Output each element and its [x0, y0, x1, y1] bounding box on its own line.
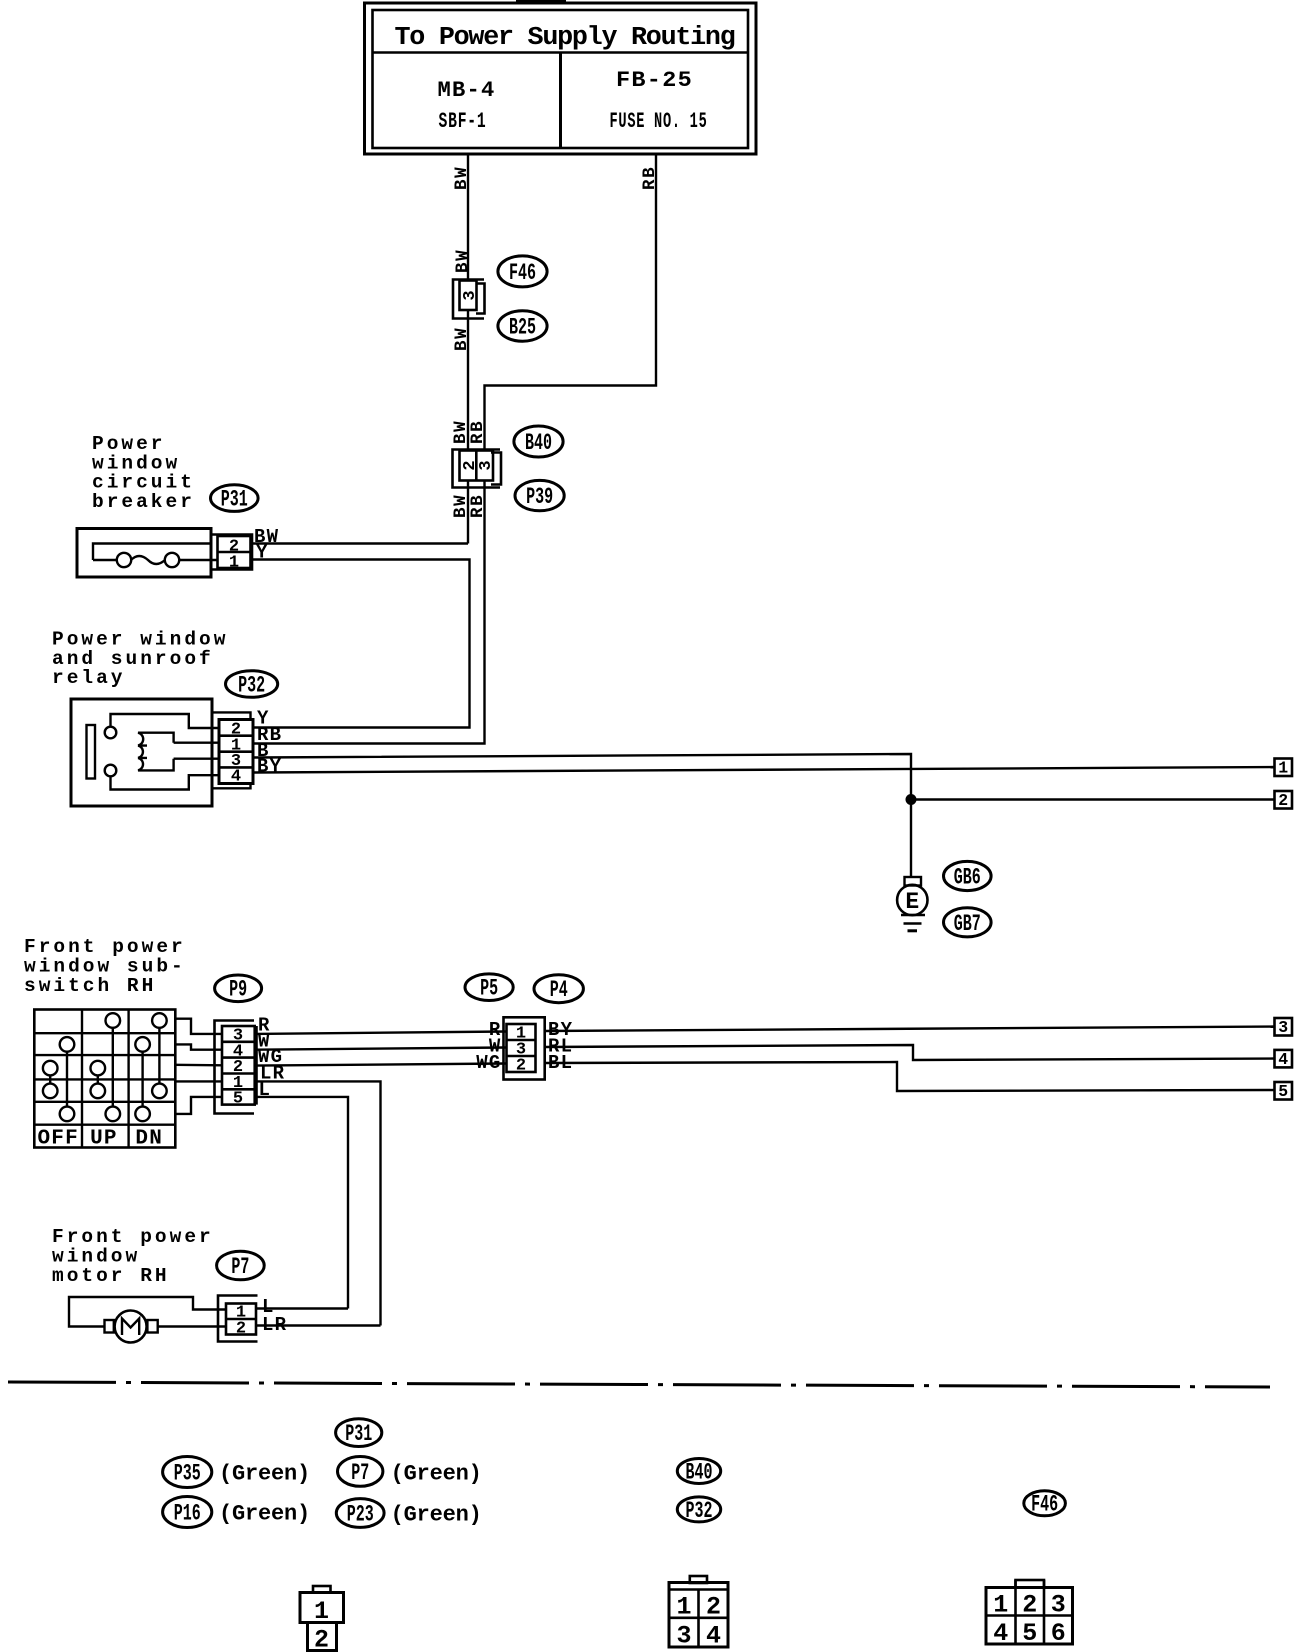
- connector B40/P39 left bracket: [453, 450, 501, 488]
- ellipse B40 (legend): [677, 1459, 720, 1484]
- wire BY from P4 to terminal 3: [545, 1027, 1275, 1032]
- connector P9 right bracket: [255, 1026, 258, 1105]
- svg-text:P7: P7: [231, 1254, 249, 1281]
- power supply routing box outer frame: [365, 3, 757, 154]
- svg-text:P5: P5: [480, 976, 498, 1003]
- motor brush block left: [105, 1320, 114, 1333]
- ellipse P35 (legend): [163, 1457, 212, 1488]
- svg-text:F46: F46: [509, 260, 536, 287]
- SEC-BREAKER: [77, 433, 470, 728]
- wire W from P9 to P5: [255, 1048, 507, 1050]
- SEC-LEGEND: [163, 1419, 1073, 1652]
- svg-text:4: 4: [706, 1622, 721, 1651]
- ellipse P31 (legend): [336, 1419, 382, 1447]
- SEC-SUBSWITCH: [24, 936, 1292, 1326]
- wire motor left loop to connector pin 1: [69, 1297, 226, 1327]
- ellipse GB7: [944, 908, 992, 937]
- stub wire grid row2 to P9 pin 4: [175, 1044, 222, 1049]
- relay connector wing top: [212, 712, 251, 719]
- cell divider MB-4 / FB-25: [559, 53, 562, 149]
- svg-text:P23: P23: [347, 1501, 374, 1528]
- svg-text:1: 1: [229, 554, 239, 573]
- connector P5/P4 outer frame: [504, 1017, 545, 1079]
- relay coil wire to pin 1: [174, 742, 219, 744]
- connector P9 left bracket: [215, 1021, 255, 1114]
- svg-text:WG: WG: [476, 1052, 501, 1074]
- section separator dash-dot line: [8, 1382, 1270, 1387]
- wire LR from P7 pin 2: [256, 1324, 381, 1326]
- title divider: [373, 51, 749, 54]
- terminal 1 box: [1275, 759, 1293, 777]
- svg-text:1: 1: [1278, 759, 1288, 778]
- SEC-GROUND: [897, 800, 991, 938]
- svg-text:2: 2: [1022, 1591, 1037, 1620]
- connector F46/B25 right bracket: [476, 284, 485, 314]
- breaker thermal wavy element: [131, 556, 165, 564]
- svg-text:DN: DN: [135, 1128, 163, 1151]
- wire RL from P4 to terminal 4: [545, 1045, 1275, 1060]
- connector B40/P39 pin cells: [460, 451, 494, 481]
- ellipse F46: [498, 256, 547, 287]
- wire motor right to connector pin 2: [158, 1325, 226, 1327]
- ellipse B25: [498, 311, 547, 341]
- wire from junction down to ground: [910, 800, 912, 878]
- svg-text:RB: RB: [640, 166, 660, 190]
- wire LR from P9 pin1 down to motor: [255, 1081, 381, 1325]
- svg-text:P39: P39: [526, 484, 553, 511]
- connector P7 left bracket: [218, 1296, 258, 1342]
- connector drawing P31 2-pin: tab: [313, 1586, 331, 1593]
- svg-text:3: 3: [477, 460, 496, 470]
- wire BL from P4 to terminal 5: [545, 1062, 1275, 1091]
- power supply routing box inner frame: [373, 10, 749, 148]
- svg-text:MB-4: MB-4: [438, 78, 496, 103]
- svg-text:P7: P7: [351, 1460, 369, 1487]
- wire Y from breaker pin 1 to relay pin 2: [251, 560, 470, 728]
- connector P5/P4 cells: [507, 1024, 536, 1072]
- svg-text:P32: P32: [238, 672, 265, 699]
- ellipse P39: [515, 480, 564, 510]
- svg-text:F46: F46: [1031, 1492, 1058, 1519]
- svg-text:1: 1: [993, 1591, 1008, 1620]
- ellipse P32: [226, 671, 278, 698]
- relay core bar: [87, 725, 96, 779]
- connector drawing F46: dividers: [1014, 1580, 1017, 1644]
- terminal 2 box: [1275, 791, 1293, 809]
- svg-text:relay: relay: [52, 667, 126, 689]
- svg-text:P16: P16: [174, 1500, 201, 1527]
- svg-text:BW: BW: [452, 166, 472, 190]
- connector P7 cells: [226, 1304, 256, 1335]
- motor M1 circle: [115, 1311, 147, 1343]
- stub wire grid row1 to P9 pin 3: [175, 1019, 222, 1034]
- connector drawing B40/P32: top strip: [669, 1588, 728, 1591]
- switch pole links: [112, 1028, 114, 1107]
- ellipse P16 (legend): [163, 1497, 212, 1528]
- wire L from P9 pin5 down to motor: [255, 1097, 348, 1309]
- SEC-TOPWIRES: [253, 154, 660, 744]
- breaker wire to pin 1: [179, 559, 218, 561]
- svg-text:E: E: [905, 889, 919, 915]
- connector drawing B40/P32 2x2: tab: [690, 1576, 707, 1583]
- svg-text:B40: B40: [686, 1459, 713, 1486]
- svg-text:FUSE NO. 15: FUSE NO. 15: [610, 109, 708, 134]
- ellipse P7 (legend): [338, 1457, 383, 1487]
- svg-text:B25: B25: [509, 315, 536, 342]
- svg-text:(Green): (Green): [391, 1462, 482, 1487]
- svg-text:3: 3: [1278, 1018, 1288, 1037]
- motor M glyph: [122, 1319, 139, 1336]
- ellipse P32 (legend): [677, 1497, 720, 1522]
- svg-text:P32: P32: [686, 1498, 713, 1525]
- switch contact circles row 1: [106, 1013, 121, 1028]
- svg-text:(Green): (Green): [391, 1503, 482, 1528]
- wire RB below B40 connector down to relay pin 1: [253, 481, 485, 744]
- svg-text:SBF-1: SBF-1: [439, 109, 487, 134]
- stub wire grid row3 to P9 pin 2: [175, 1064, 222, 1067]
- breaker connector cells: [218, 536, 251, 568]
- svg-text:2: 2: [314, 1626, 329, 1652]
- svg-text:P9: P9: [229, 977, 247, 1004]
- connector F46/B25 left bracket: [453, 280, 484, 319]
- ellipse P23 (legend): [336, 1499, 384, 1528]
- relay connector cells: [219, 720, 253, 784]
- ground hatch line 3: [908, 929, 918, 932]
- motor brush block right: [147, 1320, 157, 1333]
- svg-text:6: 6: [1051, 1619, 1066, 1648]
- svg-text:To Power Supply Routing: To Power Supply Routing: [395, 23, 735, 52]
- svg-text:4: 4: [993, 1619, 1008, 1648]
- relay P32 body: [71, 699, 212, 806]
- wire BY from relay pin 4 to terminal 1: [253, 767, 1275, 773]
- svg-text:5: 5: [1278, 1082, 1288, 1101]
- wire BW from SBF-1 down to F46 connector: [467, 154, 469, 280]
- ellipse P31: [211, 485, 259, 512]
- svg-text:BW: BW: [453, 249, 473, 273]
- svg-text:(Green): (Green): [219, 1502, 310, 1527]
- svg-text:BW: BW: [452, 327, 472, 351]
- ellipse P7: [217, 1251, 265, 1280]
- relay contact circle top: [105, 727, 117, 739]
- wire RB from FUSE NO.15 down: [485, 154, 657, 450]
- connector drawing F46: middle column tab: [1016, 1580, 1045, 1588]
- relay coil wire to pin 3: [174, 758, 219, 760]
- relay wire contact top to pin 2: [111, 714, 220, 728]
- ellipse P4: [534, 975, 583, 1003]
- ground circle E: [897, 885, 927, 915]
- connector drawing P31: cell 2: [308, 1623, 337, 1651]
- breaker connector bracket: [211, 535, 252, 570]
- connector drawing F46 2x3: outer: [986, 1588, 1073, 1645]
- SEC-MOTOR: [8, 1226, 1270, 1387]
- svg-text:2: 2: [1278, 791, 1288, 810]
- switch contact circles row 2: [60, 1037, 75, 1052]
- svg-text:B40: B40: [525, 430, 552, 457]
- breaker contact circle right: [165, 553, 179, 567]
- SEC-TOPBOX: [365, 0, 757, 154]
- svg-text:3: 3: [1051, 1591, 1066, 1620]
- junction node: [906, 794, 917, 805]
- svg-text:5: 5: [233, 1090, 243, 1109]
- relay coil: [138, 733, 174, 771]
- relay connector wing bottom: [212, 784, 251, 789]
- svg-text:5: 5: [1022, 1619, 1037, 1648]
- connector P9 cells: [222, 1026, 255, 1105]
- svg-text:2: 2: [516, 1057, 526, 1076]
- connector drawing P31: cell 1: [300, 1593, 344, 1623]
- switch contact circles row 3: [43, 1061, 58, 1076]
- relay wire contact bottom to pin 4: [111, 775, 220, 789]
- svg-text:breaker: breaker: [92, 491, 195, 513]
- svg-text:motor RH: motor RH: [52, 1265, 170, 1287]
- ellipse P9: [215, 975, 262, 1002]
- switch contact circles row 5: [60, 1107, 75, 1122]
- svg-text:1: 1: [676, 1593, 691, 1622]
- svg-text:4: 4: [1278, 1050, 1288, 1069]
- svg-text:FB-25: FB-25: [616, 68, 693, 93]
- switch contact circles row 4: [43, 1084, 58, 1099]
- breaker contact circle left: [117, 553, 131, 567]
- connector F46/B25 pin cell: [460, 281, 477, 311]
- ellipse P5: [465, 974, 513, 1001]
- svg-text:2: 2: [706, 1593, 721, 1622]
- wire WG from P9 to P5: [255, 1064, 507, 1066]
- svg-text:GB7: GB7: [954, 911, 981, 938]
- SEC-RELAY: [52, 629, 1292, 811]
- connector B40/P39 right bracket: [491, 453, 501, 485]
- breaker internal wire lower with contacts: [93, 559, 117, 561]
- connector drawing B40/P32: dividers: [697, 1590, 700, 1648]
- wire R from P9 to P5: [255, 1032, 507, 1034]
- svg-text:(Green): (Green): [219, 1462, 310, 1487]
- svg-text:BY: BY: [257, 756, 282, 778]
- wire BW from breaker pin 2 to vertical: [251, 542, 469, 544]
- svg-text:P4: P4: [550, 977, 568, 1004]
- terminal 3 box: [1275, 1018, 1293, 1036]
- relay contact circle bottom: [105, 765, 117, 777]
- page-top cut-off mark: [516, 0, 566, 3]
- grid column lines: [81, 1010, 83, 1148]
- ground hatch line 2: [904, 922, 922, 925]
- stub wire grid row4 to P9 pin 1: [175, 1080, 222, 1082]
- ellipse B40: [514, 426, 563, 457]
- svg-text:2: 2: [236, 1320, 246, 1339]
- ellipse GB6: [944, 861, 992, 890]
- svg-text:P35: P35: [174, 1460, 201, 1487]
- terminal 5 box: [1275, 1082, 1293, 1100]
- wire BW between F46 and B40 connectors: [467, 310, 469, 450]
- wire BW below B40 connector to breaker junction: [467, 481, 469, 544]
- wire B from relay pin 3 to junction: [253, 754, 911, 800]
- stub wire grid row5 to P9 pin 5: [175, 1097, 222, 1114]
- svg-text:3: 3: [461, 290, 480, 300]
- wire from junction to terminal 2: [911, 798, 1275, 800]
- svg-text:4: 4: [231, 768, 241, 787]
- sub-switch grid outer box: [34, 1010, 175, 1148]
- svg-text:P31: P31: [345, 1421, 372, 1448]
- wire L from P7 pin 1: [256, 1307, 348, 1309]
- svg-text:GB6: GB6: [954, 865, 981, 892]
- circuit breaker P31 body: [77, 529, 211, 578]
- ellipse F46 (legend): [1024, 1491, 1066, 1516]
- svg-text:switch RH: switch RH: [24, 975, 156, 997]
- breaker internal wire upper: [93, 544, 211, 561]
- ground hatch line 1: [901, 914, 925, 917]
- svg-text:UP: UP: [90, 1128, 118, 1151]
- svg-text:RB: RB: [468, 420, 488, 444]
- connector drawing B40/P32: outer: [669, 1583, 728, 1648]
- svg-text:OFF: OFF: [37, 1128, 78, 1151]
- ground terminal block: [905, 877, 922, 886]
- svg-text:P31: P31: [221, 486, 248, 513]
- svg-text:3: 3: [676, 1622, 691, 1651]
- grid row lines: [34, 1032, 175, 1034]
- terminal 4 box: [1275, 1050, 1293, 1068]
